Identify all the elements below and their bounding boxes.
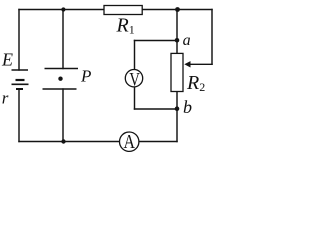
wire R2 bottom lead to node b	[176, 92, 178, 110]
svg-text:P: P	[80, 67, 91, 86]
rheostat R2	[171, 53, 183, 91]
svg-text:E: E	[1, 50, 13, 70]
wire voltmeter upper vertical	[134, 41, 136, 70]
junction dot top right	[175, 7, 180, 12]
voltmeter V	[125, 70, 142, 87]
wire voltmeter lower vertical	[134, 87, 136, 109]
wire right vertical	[211, 10, 213, 65]
svg-text:V: V	[129, 70, 140, 91]
wire voltmeter bottom horizontal to node b	[135, 108, 178, 110]
node a dot	[175, 38, 180, 43]
node b dot	[175, 106, 180, 111]
wire left lower (from battery)	[18, 90, 20, 142]
R2 wiper arrowhead	[184, 61, 190, 67]
particle P dot	[58, 77, 62, 81]
junction dot top capacitor	[61, 7, 65, 11]
capacitor with particle P	[43, 69, 79, 90]
wire node b down to bottom wire	[176, 109, 178, 142]
wire node a branch (junction to R2 top)	[176, 10, 178, 54]
resistor R1	[104, 6, 142, 15]
svg-text:A: A	[124, 131, 136, 153]
wire left upper (to battery)	[18, 10, 20, 71]
battery E,r	[12, 70, 29, 89]
wire voltmeter top horizontal to node a	[135, 40, 178, 42]
svg-text:b: b	[183, 97, 192, 117]
ammeter A	[120, 132, 139, 151]
wire bottom horizontal	[19, 141, 177, 143]
wire wiper shaft to R2	[189, 63, 212, 65]
junction dot bottom capacitor	[61, 139, 65, 143]
wire capacitor branch upper	[62, 10, 64, 69]
svg-text:a: a	[183, 32, 191, 49]
wire top horizontal	[19, 9, 212, 11]
svg-text:r: r	[2, 89, 9, 108]
wire capacitor branch lower	[62, 89, 64, 142]
